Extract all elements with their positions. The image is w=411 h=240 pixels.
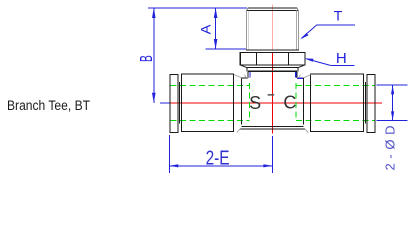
neck side left (246, 68, 248, 72)
dim 2-OD arrow top (391, 85, 394, 94)
body top step right horizontal (297, 77, 304, 79)
dim 2-E horizontal line (169, 165, 272, 167)
svg-text:S: S (249, 93, 261, 113)
dim A arrow top (214, 8, 218, 18)
body left side (241, 78, 243, 125)
dim extension line top (148, 7, 247, 9)
blue port bore tick right (295, 72, 297, 77)
body bottom left corner chamfer (237, 129, 240, 133)
svg-text:A: A (199, 24, 215, 34)
red vertical center line lower (272, 53, 274, 134)
blue step segment right (297, 77, 303, 79)
green hidden bore end left vertical (248, 83, 250, 120)
left connector sleeve line (179, 82, 181, 123)
dim B extension bottom (160, 102, 170, 104)
leader H diagonal (307, 59, 331, 66)
green hidden bore line right top (296, 84, 375, 86)
body bottom line 2 (240, 128, 305, 130)
leader T diagonal (302, 25, 317, 38)
blue port bore tick left (249, 72, 251, 77)
thread major dia side left (246, 11, 248, 50)
hex lower chamfer left slant (240, 65, 247, 68)
body bottom line 1 (242, 125, 304, 127)
male thread top edge line (247, 10, 299, 12)
svg-text:T: T (334, 8, 343, 24)
right connector sleeve line (364, 82, 366, 123)
dim B arrow bottom (152, 93, 156, 103)
gray tick between S and C (268, 94, 275, 96)
dim 2-E arrow right (263, 164, 272, 167)
dim 2-E arrow left (169, 164, 178, 167)
hex lower chamfer right slant (298, 65, 305, 68)
dim 2-OD bottom extension (377, 119, 408, 121)
step corner gray curl left (245, 75, 248, 78)
body top left gray diagonal (234, 75, 241, 78)
neck side right (297, 68, 299, 72)
washer face top line (246, 49, 299, 51)
green hidden bore line left bottom (171, 119, 250, 121)
step corner gray curl right (297, 75, 300, 78)
red vertical center line upper pale (272, 5, 274, 51)
dim 2-OD top extension (377, 84, 408, 86)
leader T arrowhead (300, 33, 308, 39)
thread minor dia line left (248, 11, 250, 50)
dim 2-E left extension (168, 135, 170, 173)
thread minor dia line right (295, 11, 297, 50)
svg-text:C: C (283, 93, 296, 113)
hex flat edge left (255, 53, 257, 65)
dim A vertical line (215, 8, 217, 49)
body top step left vertical (247, 71, 249, 78)
body right side (302, 78, 304, 125)
svg-text:2-E: 2-E (206, 148, 230, 170)
dim B vertical line (153, 8, 155, 103)
body top right gray diagonal (303, 75, 310, 78)
dim 2-OD arrow bottom (391, 111, 394, 120)
leader H landing line (331, 65, 355, 67)
svg-text:2-ØD: 2-ØD (382, 126, 397, 171)
svg-text:Branch Tee, BT: Branch Tee, BT (7, 97, 90, 113)
right connector body (310, 74, 363, 131)
hex flat edge right (288, 53, 290, 65)
dim B arrow top (152, 8, 156, 18)
body top face line (248, 70, 297, 72)
hex nut outline (240, 52, 305, 65)
svg-text:H: H (336, 50, 347, 67)
leader H arrowhead (305, 58, 314, 61)
hex lower chamfer bottom line (247, 67, 298, 69)
green hidden bore line left top (171, 84, 250, 86)
left connector body (181, 74, 233, 131)
dim 2-OD vertical line (392, 85, 394, 120)
body top step left horizontal (242, 77, 249, 79)
thread chamfer slant left (247, 8, 248, 11)
body bottom right corner chamfer (305, 129, 308, 133)
red horizontal center line (169, 102, 383, 104)
dim A extension bottom (206, 48, 246, 50)
right connector cap (367, 74, 375, 132)
green hidden bore end right vertical (295, 83, 297, 120)
dim 2-E right extension blue center line (271, 136, 273, 173)
green hidden bore line right bottom (296, 119, 375, 121)
male thread top chamfer line (248, 7, 297, 9)
left connector cap (170, 74, 178, 132)
body top step right vertical (296, 71, 298, 78)
thread major dia side right (297, 11, 299, 50)
leader T landing line (317, 24, 355, 26)
dim A arrow bottom (214, 39, 218, 49)
svg-text:B: B (138, 55, 158, 62)
thread chamfer slant right (297, 8, 298, 11)
